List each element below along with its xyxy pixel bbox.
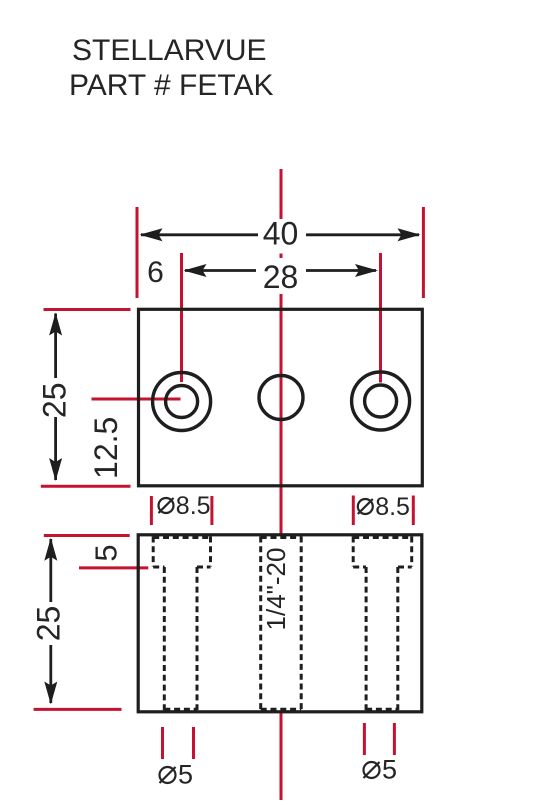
svg-text:25: 25: [37, 383, 73, 419]
svg-text:25: 25: [31, 606, 67, 642]
svg-text:STELLARVUE: STELLARVUE: [72, 34, 267, 67]
svg-text:5: 5: [382, 755, 397, 785]
svg-text:8.5: 8.5: [375, 493, 410, 521]
svg-text:PART # FETAK: PART # FETAK: [69, 69, 274, 102]
svg-text:8.5: 8.5: [176, 492, 211, 520]
svg-text:40: 40: [263, 216, 299, 252]
svg-text:6: 6: [147, 256, 164, 289]
svg-text:28: 28: [263, 259, 299, 295]
svg-text:12.5: 12.5: [88, 417, 124, 479]
svg-text:5: 5: [88, 544, 123, 561]
svg-text:5: 5: [178, 760, 193, 790]
svg-text:1/4"-20: 1/4"-20: [261, 548, 291, 631]
